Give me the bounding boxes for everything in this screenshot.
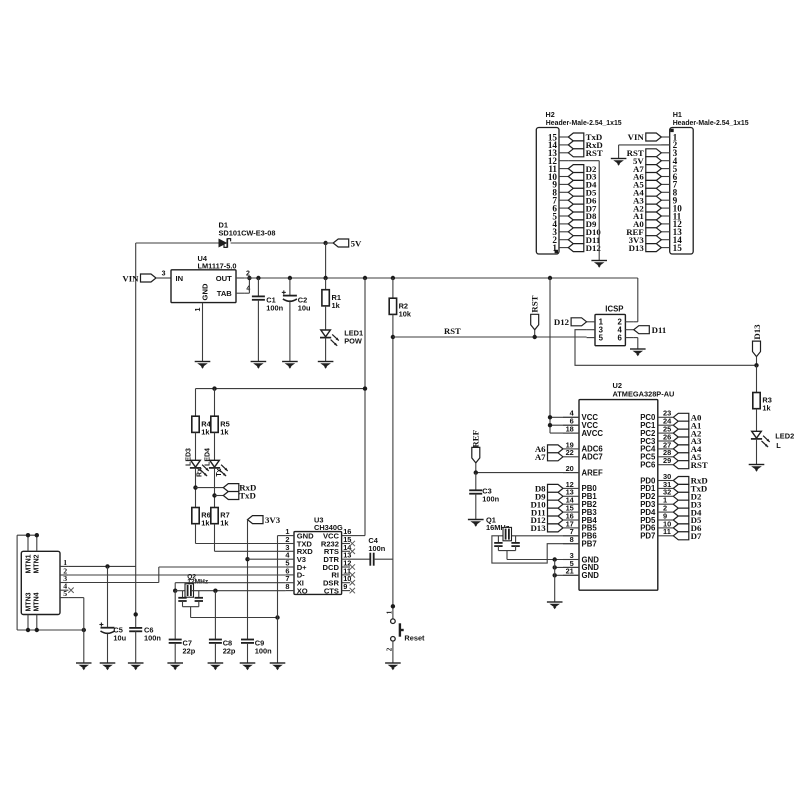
- net flag A6 on H1 pin 6: [646, 173, 662, 181]
- net flag A5 on H1 pin 7: [646, 180, 662, 188]
- ground for C7: [167, 662, 183, 664]
- svg-text:3V3: 3V3: [265, 515, 281, 525]
- junction GND5: [553, 565, 557, 569]
- svg-text:1: 1: [195, 307, 202, 311]
- svg-text:8: 8: [570, 535, 574, 544]
- net flag D4 on U2 right pin: [673, 508, 689, 516]
- net flag REF (vertical): [472, 447, 480, 463]
- junction XI/crystal/C7: [173, 589, 177, 593]
- svg-text:SD101CW-E3-08: SD101CW-E3-08: [219, 229, 276, 238]
- ground for C6: [128, 662, 144, 664]
- wire USB D+ (pin3) to U3: [68, 582, 158, 584]
- LED LED1 POW: [321, 330, 331, 337]
- wire PB6 to crystal right: [509, 535, 579, 537]
- regulator U4 LM1117-5.0: [171, 270, 236, 303]
- net flag D6 on H2 pin 7: [568, 196, 584, 204]
- svg-text:22p: 22p: [223, 647, 236, 656]
- wire PB7 loop to crystal left: [492, 536, 579, 563]
- wire R7 to U3 RXD: [214, 524, 216, 552]
- ground for U2: [547, 601, 563, 603]
- svg-text:1k: 1k: [201, 519, 210, 528]
- svg-text:MTN3: MTN3: [25, 592, 32, 611]
- svg-text:100n: 100n: [144, 633, 161, 642]
- wire 3V3 down to V3 and C9: [247, 520, 249, 640]
- svg-text:LED2: LED2: [775, 432, 794, 441]
- Q2 load capacitor right: [198, 591, 200, 598]
- svg-text:5V: 5V: [351, 238, 362, 248]
- H2 pin-1 marker: [555, 250, 558, 253]
- ground for C5: [100, 662, 116, 664]
- junction RxD: [193, 485, 197, 489]
- net flag D5 on U2 right pin: [673, 516, 689, 524]
- net flag 5V: [326, 242, 334, 244]
- junction AREF/C3: [474, 470, 478, 474]
- wire USB D- (pin2) to U3: [68, 574, 285, 576]
- svg-text:H2: H2: [546, 110, 555, 119]
- net flag A5 on U2 right pin: [673, 453, 689, 461]
- junction C5 tap: [105, 564, 109, 568]
- net flag D10 on H2 pin 3: [568, 228, 584, 236]
- svg-text:MTN4: MTN4: [34, 592, 41, 611]
- net flag RxD on H2 pin 14: [568, 141, 584, 149]
- svg-text:20: 20: [566, 464, 574, 473]
- svg-text:L: L: [776, 441, 781, 450]
- wire D1 cathode to 5V node: [231, 242, 326, 244]
- svg-text:Header-Male-2.54_1x15: Header-Male-2.54_1x15: [546, 120, 622, 127]
- USB MTN left loop: [16, 535, 18, 630]
- USB pin4 no-connect mark: [68, 588, 73, 593]
- resistor R3 1k: [753, 393, 760, 409]
- junction reset pin1: [391, 604, 395, 608]
- resistor R4 1k: [195, 389, 197, 417]
- U3 unconnected pin marks: [350, 541, 355, 546]
- svg-text:GND: GND: [200, 283, 209, 300]
- ground for USB: [76, 662, 92, 664]
- connector ICSP 2x3: [595, 314, 625, 345]
- Q1 load capacitor right: [515, 536, 517, 543]
- svg-text:D13: D13: [629, 243, 645, 253]
- Q2 load capacitor left: [182, 591, 184, 598]
- wire VIN to U4 pin3: [156, 277, 171, 279]
- wire U3 VCC up to +5V rail: [350, 535, 365, 537]
- net flag D10 on U2 left pin: [548, 500, 564, 508]
- ground for LED2: [749, 464, 765, 466]
- net flag 3V3: [248, 516, 264, 524]
- svg-text:POW: POW: [344, 336, 362, 345]
- wire XO (crystal right lead to U3): [191, 590, 286, 592]
- svg-text:1k: 1k: [201, 427, 210, 436]
- svg-text:100n: 100n: [266, 303, 283, 312]
- crystal Q1 16MHz: [503, 527, 512, 540]
- net flag D9 on H2 pin 4: [568, 220, 584, 228]
- net flag A3 on U2 right pin: [673, 437, 689, 445]
- capacitor C7 22p: [174, 591, 176, 640]
- svg-text:Rx: Rx: [196, 468, 203, 477]
- svg-text:D12: D12: [554, 317, 570, 327]
- svg-text:5: 5: [63, 589, 67, 598]
- junction VCC pin6: [548, 423, 552, 427]
- svg-text:XO: XO: [297, 586, 308, 595]
- Q1 load capacitor left: [497, 536, 499, 543]
- U4 pin4 TAB wire up to OUT rail: [236, 292, 244, 294]
- IC U3 CH340G: [294, 532, 342, 595]
- svg-text:10u: 10u: [298, 303, 311, 312]
- net flag RST on U2 right pin: [673, 461, 689, 469]
- wire U3 GND pin1 down: [278, 535, 286, 537]
- svg-text:100n: 100n: [255, 647, 272, 656]
- wire +5V rail: [244, 277, 637, 279]
- Q2 center ground lead: [183, 606, 199, 608]
- wire GND pin21: [555, 574, 579, 576]
- ground for C3: [468, 519, 484, 521]
- svg-text:Header-Male-2.54_1x15: Header-Male-2.54_1x15: [673, 120, 749, 127]
- IC U2 ATMEGA328P-AU: [579, 400, 658, 591]
- wire 5V flag down to +5V rail: [325, 243, 327, 278]
- capacitor C5 10u (polarized): [107, 566, 109, 627]
- svg-text:10u: 10u: [113, 633, 126, 642]
- svg-text:LM1117-5.0: LM1117-5.0: [198, 262, 237, 271]
- wire USB VBUS (pin1): [68, 565, 135, 567]
- resistor R7 1k: [211, 508, 218, 524]
- resistor R2 10k: [392, 278, 394, 298]
- wire rail to ICSP pin2: [637, 278, 639, 322]
- svg-text:15: 15: [548, 132, 558, 142]
- svg-text:RST: RST: [691, 460, 708, 470]
- net flag TxD on U2 right pin: [673, 484, 689, 492]
- capacitor C6 100n: [129, 627, 142, 629]
- wire USB GND (pin5): [68, 597, 83, 599]
- connector H2 Header-Male-2.54_1x15: [536, 128, 559, 255]
- net flag RxD on U2 right pin: [673, 477, 689, 485]
- U2 left pin stubs, numbers, names: [563, 416, 579, 418]
- svg-text:1k: 1k: [762, 404, 771, 413]
- H1 pin-1 marker: [670, 129, 673, 132]
- svg-text:5: 5: [599, 334, 604, 343]
- net flag D12 on H2 pin 1: [568, 244, 584, 252]
- wire D13 node to R3: [756, 365, 758, 392]
- wire GND chain down: [554, 560, 556, 602]
- net flag RST on H1 pin 3: [646, 149, 662, 157]
- svg-text:15: 15: [673, 243, 683, 253]
- svg-text:ADC7: ADC7: [582, 453, 603, 462]
- svg-text:AVCC: AVCC: [582, 429, 604, 438]
- net flag D13 on U2 left pin: [548, 524, 564, 532]
- net flag A7 on H1 pin 5: [646, 165, 662, 173]
- svg-text:RST: RST: [444, 326, 461, 336]
- wire LED1 to ground: [325, 338, 327, 362]
- svg-text:21: 21: [566, 567, 574, 576]
- Q1 center ground lead: [498, 550, 515, 552]
- connector H1 Header-Male-2.54_1x15: [670, 128, 694, 255]
- LED LED2: [752, 431, 762, 438]
- U4 pin1 GND wire down: [202, 303, 204, 362]
- ground for C9: [240, 662, 256, 664]
- net flag D2 on H2 pin 11: [568, 165, 584, 173]
- svg-text:CTS: CTS: [324, 586, 339, 595]
- wire V3 to U3: [248, 558, 286, 560]
- ground for C1: [251, 361, 267, 363]
- wire ICSP pin6 to ground: [634, 337, 638, 339]
- wire R3 to LED2: [756, 409, 758, 432]
- junction GND21: [553, 573, 557, 577]
- svg-text:Reset: Reset: [404, 633, 425, 642]
- net flag A1 on U2 right pin: [673, 421, 689, 429]
- wire H2 pin12 to ground: [568, 160, 599, 162]
- svg-text:8: 8: [285, 582, 289, 591]
- svg-text:PD7: PD7: [640, 532, 655, 541]
- svg-text:AREF: AREF: [582, 468, 603, 477]
- net flag REF on H1 pin 13: [646, 228, 662, 236]
- net flag 5V on H1 pin 4: [646, 157, 662, 165]
- svg-text:11: 11: [663, 527, 671, 536]
- svg-text:1k: 1k: [220, 427, 229, 436]
- svg-text:OUT: OUT: [216, 274, 232, 283]
- svg-text:10k: 10k: [399, 309, 412, 318]
- H2 pin stubs: [559, 247, 568, 249]
- junction GND3: [553, 557, 557, 561]
- wire R2 bottom / RST vertical down to reset switch: [392, 314, 394, 618]
- net flag RxD: [196, 487, 224, 489]
- net flag RST on H2 pin 13: [568, 149, 584, 157]
- net flag A0 on H1 pin 12: [646, 220, 662, 228]
- net flag D11 to ICSP pin4: [634, 326, 650, 334]
- net flag A2 on H1 pin 10: [646, 204, 662, 212]
- junction LED feed at CH340 VCC line: [363, 386, 367, 390]
- junction at 5V flag: [323, 241, 327, 245]
- svg-text:MTN2: MTN2: [34, 554, 41, 573]
- wire ICSP pin3 to D13 net: [575, 330, 757, 366]
- svg-text:U2: U2: [613, 381, 622, 390]
- net flag A6 on U2 left pin: [548, 445, 564, 453]
- wire R6 to U3 TXD: [195, 524, 197, 544]
- ground for C8: [208, 662, 224, 664]
- ground for ICSP pin6: [630, 348, 646, 350]
- resistor R5 1k: [214, 389, 216, 417]
- ground for U4: [195, 361, 211, 363]
- junction R2/RST line: [391, 335, 395, 339]
- svg-text:REF: REF: [470, 430, 480, 448]
- ground for H1 pin2: [611, 158, 627, 160]
- svg-text:22p: 22p: [183, 647, 196, 656]
- capacitor C1 100n: [257, 278, 259, 296]
- net flag D3 on U2 right pin: [673, 500, 689, 508]
- wire reset switch to ground: [392, 641, 394, 663]
- resistor R6 1k: [192, 508, 199, 524]
- wire LED2 to ground: [756, 439, 758, 464]
- junction CH340-VCC on rail: [363, 276, 367, 280]
- wire RST net horizontal: [393, 336, 587, 338]
- svg-text:1k: 1k: [332, 301, 341, 310]
- net flag A7 on U2 left pin: [548, 453, 564, 461]
- svg-text:18: 18: [566, 425, 574, 434]
- junction XO/C8: [213, 589, 217, 593]
- net flag D11 on H2 pin 2: [568, 236, 584, 244]
- svg-text:9: 9: [343, 582, 347, 591]
- net flag A2 on U2 right pin: [673, 429, 689, 437]
- USB MTN top pins: [27, 535, 29, 551]
- net flag D3 on H2 pin 10: [568, 173, 584, 181]
- svg-text:D7: D7: [691, 531, 702, 541]
- net flag D7 on U2 right pin: [673, 532, 689, 540]
- net flag A0 on U2 right pin: [673, 413, 689, 421]
- junction LED feed at R5: [212, 386, 216, 390]
- svg-text:MTN1: MTN1: [25, 554, 32, 573]
- wire R4 to LED3: [195, 432, 197, 460]
- svg-text:PB7: PB7: [582, 540, 597, 549]
- wire H1 pin2 to ground: [619, 144, 670, 146]
- net flag 3V3 on H1 pin 14: [646, 236, 662, 244]
- ground for reset switch: [385, 662, 401, 664]
- svg-text:TAB: TAB: [217, 289, 233, 298]
- svg-text:D11: D11: [652, 325, 667, 335]
- connector USB (MTN): [21, 551, 60, 614]
- svg-text:1k: 1k: [220, 519, 229, 528]
- svg-text:ICSP: ICSP: [605, 305, 623, 314]
- svg-text:RST: RST: [586, 148, 603, 158]
- net flag D12 on U2 left pin: [548, 516, 564, 524]
- junction R1/5V on rail: [323, 276, 327, 280]
- diode D1 SD101CW-E3-08: [219, 239, 228, 248]
- net flag D8 on U2 left pin: [548, 484, 564, 492]
- USB MTN bottom pins: [27, 615, 29, 631]
- svg-text:29: 29: [663, 456, 671, 465]
- svg-text:H1: H1: [673, 110, 682, 119]
- junction R2 on rail: [391, 276, 395, 280]
- svg-text:100n: 100n: [368, 544, 385, 553]
- junction Q2 gnd / U3 GND line: [275, 615, 279, 619]
- junction TxD: [212, 493, 216, 497]
- svg-text:2: 2: [386, 647, 394, 651]
- svg-text:3: 3: [162, 270, 166, 277]
- wire LED4 to TxD node: [214, 468, 216, 508]
- wire GND pin5: [555, 566, 579, 568]
- wire AREF: [476, 472, 579, 474]
- svg-text:Tx: Tx: [216, 468, 223, 476]
- capacitor C2 10u (polarized): [289, 278, 291, 296]
- U3 pin stubs, numbers, names: [286, 535, 294, 537]
- wire VBUS vertical (USB 5V up to diode D1): [135, 243, 137, 628]
- junction C1 on rail: [256, 276, 260, 280]
- capacitor C3 100n: [475, 473, 477, 491]
- svg-text:LED4: LED4: [204, 448, 211, 466]
- net flag D4 on H2 pin 9: [568, 180, 584, 188]
- svg-text:D13: D13: [530, 523, 546, 533]
- net flag D13 on H1 pin 15: [646, 244, 662, 252]
- net flag D8 on H2 pin 5: [568, 212, 584, 220]
- svg-text:LED3: LED3: [185, 448, 192, 466]
- net flag A3 on H1 pin 9: [646, 196, 662, 204]
- net flag RST (vertical): [531, 314, 539, 330]
- wire D13 flag to node: [756, 357, 758, 366]
- svg-text:GND: GND: [582, 571, 600, 580]
- junction on VBUS drop: [134, 612, 138, 616]
- wire LED3 to RxD node: [195, 468, 197, 508]
- crystal Q2 12MHz: [185, 584, 194, 597]
- svg-text:PC6: PC6: [640, 461, 656, 470]
- svg-text:1: 1: [386, 610, 394, 614]
- svg-text:TxD: TxD: [239, 491, 256, 501]
- svg-text:IN: IN: [176, 274, 184, 283]
- svg-text:22: 22: [566, 448, 574, 457]
- wire crystal left lead: [175, 590, 187, 592]
- wire XI: [175, 582, 285, 584]
- svg-text:D13: D13: [752, 324, 762, 340]
- net flag D7 on H2 pin 6: [568, 204, 584, 212]
- U2 right pin stubs, numbers, names: [658, 416, 674, 418]
- svg-text:A7: A7: [535, 452, 546, 462]
- wire R5 to LED4: [214, 432, 216, 460]
- junction C2 on rail: [288, 276, 292, 280]
- LED LED3 (RX): [191, 460, 201, 467]
- net flag D9 on U2 left pin: [548, 492, 564, 500]
- ground for H2 pin12: [591, 260, 607, 262]
- capacitor C4 100n (DTR-RST): [350, 558, 370, 560]
- svg-text:RST: RST: [529, 295, 539, 312]
- USB pin stubs and numbers: [60, 565, 68, 567]
- H1 pin stubs: [661, 136, 669, 138]
- ICSP pin stubs and numbers: [587, 321, 595, 323]
- junction D13 node: [754, 363, 758, 367]
- wire +5V down to VCC/AVCC: [549, 278, 551, 433]
- junction V3 line: [245, 557, 249, 561]
- net flag TxD: [215, 495, 224, 497]
- ground for C2: [282, 361, 298, 363]
- svg-text:ATMEGA328P-AU: ATMEGA328P-AU: [613, 390, 675, 399]
- junction TAB/OUT: [247, 276, 251, 280]
- wire LED feed from +5V: [196, 388, 366, 390]
- capacitor C9 100n: [241, 639, 254, 641]
- capacitor C8 22p: [214, 591, 216, 640]
- net flag A1 on H1 pin 11: [646, 212, 662, 220]
- wire GND pin3: [507, 559, 579, 561]
- net flag A4 on U2 right pin: [673, 445, 689, 453]
- ground for U3: [270, 662, 286, 664]
- wire R1 to LED1: [325, 306, 327, 330]
- net flag TxD on H2 pin 15: [568, 133, 584, 141]
- net flag D2 on U2 right pin: [673, 492, 689, 500]
- svg-text:VIN: VIN: [122, 273, 139, 283]
- net flag A4 on H1 pin 8: [646, 188, 662, 196]
- wire D1 anode: [136, 242, 219, 244]
- junction RST flag: [533, 335, 537, 339]
- net flag D11 on U2 left pin: [548, 508, 564, 516]
- ground for LED1: [318, 361, 334, 363]
- resistor R1 1k: [325, 278, 327, 290]
- svg-text:6: 6: [617, 334, 622, 343]
- junction VCC pin4: [548, 415, 552, 419]
- net flag D6 on U2 right pin: [673, 524, 689, 532]
- net flag D13 (vertical): [753, 341, 761, 357]
- net flag VIN on H1 pin 1: [646, 133, 662, 141]
- U4 pin2 OUT stub: [236, 277, 244, 279]
- svg-text:VIN: VIN: [628, 132, 645, 142]
- svg-text:100n: 100n: [482, 494, 499, 503]
- junction AVCC drop on rail: [548, 276, 552, 280]
- LED LED4 (TX): [210, 460, 220, 467]
- net flag D5 on H2 pin 8: [568, 188, 584, 196]
